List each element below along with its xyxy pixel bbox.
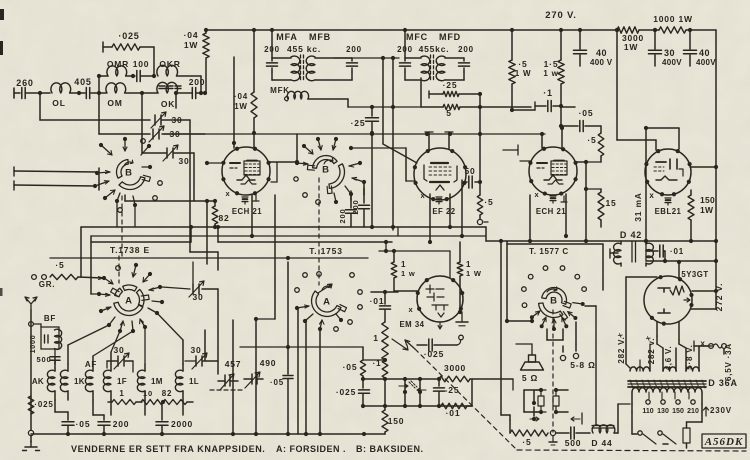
- svg-text:MFD: MFD: [439, 32, 461, 42]
- wire: [98, 168, 100, 190]
- svg-text:400 V: 400 V: [590, 58, 613, 67]
- resistor 1 det: [108, 389, 142, 405]
- svg-text:5-8 Ω: 5-8 Ω: [570, 360, 595, 370]
- wire: [639, 28, 659, 32]
- capacitor .1: [535, 88, 563, 112]
- capacitor -25: [434, 379, 460, 406]
- coil 1F: [103, 364, 127, 400]
- svg-text:-25: -25: [445, 385, 460, 395]
- trimmer 30 a: [151, 112, 190, 252]
- transformer D42: [610, 230, 653, 266]
- switch B3 contacts: [530, 302, 585, 331]
- coil OM: [106, 83, 158, 108]
- coil OKR: [157, 59, 201, 91]
- tube EBL21 spigot: [649, 191, 671, 205]
- svg-text:200: 200: [351, 200, 360, 215]
- switch A1 shaft: [116, 256, 121, 283]
- svg-text:BF: BF: [44, 314, 56, 323]
- svg-text:1000 1W: 1000 1W: [653, 14, 693, 24]
- svg-text:1 W: 1 W: [466, 269, 482, 278]
- output transformer: [524, 388, 568, 414]
- wire: [240, 262, 363, 368]
- label T.1738E: [110, 245, 150, 255]
- coil OL: [51, 83, 85, 108]
- label 282V a: [617, 336, 626, 363]
- coil OK: [157, 82, 178, 109]
- wire: [363, 404, 472, 408]
- svg-text:VENDERNE ER SETT FRA KNAPPSIDE: VENDERNE ER SETT FRA KNAPPSIDEN.: [71, 444, 265, 454]
- capacitor 30 400V: [649, 28, 683, 67]
- resistor 1.5 1W: [543, 30, 564, 107]
- label 270V: [545, 10, 576, 21]
- wire: [448, 180, 464, 238]
- svg-text:30: 30: [190, 345, 201, 355]
- wire: [501, 415, 510, 420]
- svg-text:OKR: OKR: [159, 59, 180, 69]
- wire: [334, 56, 399, 60]
- wire: [428, 194, 432, 244]
- wire: [351, 188, 364, 200]
- capacitor 260: [16, 78, 50, 99]
- svg-text:·5: ·5: [587, 135, 596, 145]
- capacitor 200 sw b: [351, 184, 370, 227]
- caption: [71, 444, 424, 454]
- wire: [505, 241, 534, 323]
- svg-text:1W: 1W: [700, 205, 714, 215]
- svg-text:200: 200: [338, 209, 347, 224]
- rotary switch B3: [539, 287, 572, 320]
- resistor .04 1W b: [234, 92, 257, 118]
- svg-text:200: 200: [458, 45, 474, 54]
- tube EBL21: [644, 149, 691, 216]
- variable capacitor 490: [244, 358, 276, 388]
- svg-text:1000: 1000: [30, 335, 37, 354]
- svg-text:6,5V ·3A: 6,5V ·3A: [724, 343, 733, 381]
- svg-text:1W: 1W: [624, 42, 639, 52]
- svg-text:1L: 1L: [189, 377, 199, 386]
- coil D44: [591, 404, 630, 448]
- ground em34: [456, 312, 468, 326]
- resistor .025: [103, 31, 154, 76]
- svg-text:·01: ·01: [446, 408, 461, 418]
- wire rail d: [486, 239, 718, 243]
- capacitor 200 sw a: [338, 196, 357, 227]
- trimmer 30 b: [149, 126, 205, 142]
- BF trap: [29, 314, 62, 353]
- svg-text:GR.: GR.: [39, 280, 56, 289]
- label 5.8V: [685, 344, 694, 369]
- svg-text:500: 500: [37, 355, 52, 364]
- GR input: [32, 260, 103, 289]
- svg-text:30: 30: [664, 48, 675, 58]
- svg-text:50: 50: [464, 166, 475, 176]
- heater x marks: [616, 331, 652, 342]
- svg-text:455 kc.: 455 kc.: [287, 44, 321, 54]
- antenna wire: [30, 310, 32, 430]
- svg-text:1 w: 1 w: [401, 269, 416, 278]
- wire: [93, 331, 133, 364]
- svg-text:·1: ·1: [543, 88, 553, 98]
- svg-text:150: 150: [388, 416, 405, 426]
- resistor 150 1W: [688, 190, 715, 243]
- antenna input terminal: [14, 88, 20, 98]
- trimmer 30 d: [107, 345, 133, 372]
- trimmer 30 e: [185, 345, 218, 369]
- svg-text:·025: ·025: [34, 400, 53, 409]
- svg-text:·01: ·01: [670, 247, 684, 256]
- svg-text:T.1738 E: T.1738 E: [110, 245, 150, 255]
- resistor 15: [598, 189, 617, 227]
- wire rail b: [91, 225, 193, 242]
- svg-text:230V: 230V: [710, 406, 732, 415]
- svg-text:405: 405: [74, 77, 91, 87]
- svg-text:OL: OL: [52, 98, 65, 108]
- wire: [663, 260, 681, 278]
- transformer D36A primary: [632, 388, 702, 404]
- tube ECH21 first: [221, 147, 270, 216]
- IF transformer MFC/MFD 455kc: [397, 32, 474, 81]
- antenna symbol: [25, 297, 37, 310]
- wire: [657, 322, 679, 340]
- svg-text:490: 490: [260, 358, 277, 368]
- coil OMR: [99, 59, 135, 78]
- switch B3 shaft: [552, 310, 554, 432]
- wire: [14, 167, 97, 176]
- svg-text:·04: ·04: [184, 30, 199, 40]
- wire: [274, 195, 276, 319]
- switch A1 contacts: [97, 263, 164, 333]
- svg-text:B: B: [125, 168, 133, 179]
- svg-text:·25: ·25: [351, 118, 366, 128]
- wire: [615, 28, 656, 150]
- capacitor 50: [464, 166, 482, 188]
- svg-text:1K: 1K: [74, 377, 85, 386]
- coil AF: [85, 360, 97, 400]
- tone switch: [399, 379, 426, 407]
- svg-text:MFA: MFA: [276, 32, 297, 42]
- tube EM34: [399, 276, 464, 329]
- svg-text:200: 200: [113, 419, 130, 429]
- wire: [254, 317, 275, 434]
- wire: [287, 418, 289, 434]
- svg-text:1: 1: [466, 260, 471, 269]
- svg-text:1 W: 1 W: [515, 69, 532, 78]
- resistor 3000 1W: [615, 27, 644, 52]
- capacitor 2000 bot: [156, 402, 193, 436]
- IF transformer MFA/MFB 455kc: [264, 32, 362, 81]
- ground main: [23, 441, 40, 451]
- wire: [298, 309, 320, 434]
- wire: [403, 28, 407, 58]
- wire: [351, 134, 406, 229]
- wire: [250, 195, 254, 238]
- svg-text:·5: ·5: [55, 260, 64, 270]
- tube 5Y3GT: [644, 270, 709, 326]
- resistor .5 g2: [586, 126, 604, 162]
- potentiometer 1 vol: [373, 322, 408, 360]
- svg-text:1M: 1M: [151, 377, 163, 386]
- rotary switch A2: [312, 284, 347, 317]
- wire: [646, 241, 718, 263]
- wire: [626, 277, 657, 368]
- trimmer 30 f: [162, 281, 218, 374]
- svg-text:110: 110: [642, 408, 653, 415]
- wire rail f: [190, 252, 218, 270]
- dashed control shaft arrow: [405, 340, 517, 450]
- resistor .01 tone: [441, 379, 472, 418]
- trimmer 30 c: [163, 145, 194, 201]
- svg-text:1: 1: [401, 260, 406, 269]
- svg-text:3000: 3000: [444, 363, 466, 373]
- wire: [560, 107, 575, 147]
- ground pot wiper: [549, 436, 557, 445]
- svg-text:T. 1577 C: T. 1577 C: [529, 247, 569, 256]
- coil 1K: [60, 364, 84, 400]
- resistor 5: [421, 78, 531, 118]
- tube EF22: [413, 148, 467, 216]
- label 230V: [704, 406, 732, 416]
- wire trimmer rail: [164, 131, 545, 136]
- svg-text:ECH 21: ECH 21: [536, 207, 566, 216]
- svg-text:·5: ·5: [484, 197, 493, 207]
- svg-text:·025: ·025: [424, 349, 444, 359]
- capacitor 500 bot: [556, 427, 590, 448]
- svg-text:OM: OM: [107, 98, 122, 108]
- svg-text:15: 15: [605, 198, 616, 208]
- svg-text:EBL21: EBL21: [655, 207, 682, 216]
- capacitor .025 em34: [417, 335, 463, 359]
- speaker: [516, 344, 544, 383]
- svg-text:AK: AK: [32, 377, 44, 386]
- wire rail e: [91, 236, 486, 294]
- wire: [383, 58, 417, 181]
- capacitor 500 bf: [37, 349, 60, 371]
- fuse 6,5V 3A: [694, 339, 733, 381]
- svg-text:100: 100: [133, 59, 150, 69]
- wire: [528, 195, 532, 243]
- svg-text:5Y3GT: 5Y3GT: [681, 270, 708, 279]
- switch B1 open contacts: [118, 139, 163, 213]
- coil 1L: [175, 364, 199, 400]
- svg-text:A: A: [323, 297, 331, 308]
- svg-text:1: 1: [373, 333, 379, 343]
- wire: [475, 94, 482, 182]
- transformer D36A secondary c: [679, 340, 712, 371]
- capacitor 40 400V b: [684, 30, 717, 67]
- wire: [503, 132, 544, 161]
- wire: [576, 306, 596, 424]
- wire rail h: [50, 256, 368, 260]
- wire rail a: [81, 227, 486, 277]
- svg-text:10: 10: [143, 389, 153, 398]
- wire: [93, 400, 183, 415]
- wire: [252, 30, 256, 147]
- switch B1 contacts: [93, 137, 152, 207]
- resistor 82: [205, 161, 230, 229]
- output terminals 5-8: [560, 344, 595, 370]
- tube ECH21-2 spigot: [535, 190, 567, 203]
- svg-text:OK: OK: [161, 99, 175, 109]
- capacitor .025 af: [336, 379, 370, 408]
- label 282V b: [647, 338, 656, 364]
- svg-text:A: FORSIDEN .: A: FORSIDEN .: [276, 444, 346, 454]
- capacitor .05: [510, 108, 601, 132]
- svg-text:D 42: D 42: [620, 230, 642, 240]
- svg-text:270 V.: 270 V.: [545, 10, 576, 21]
- label T.1577C: [529, 247, 569, 256]
- wire: [379, 240, 450, 277]
- wire: [644, 126, 718, 169]
- svg-text:2000: 2000: [171, 419, 193, 429]
- wire: [140, 91, 166, 153]
- wire: [270, 28, 274, 58]
- svg-text:T. 1753: T. 1753: [309, 246, 342, 256]
- resistor .25 agc: [429, 80, 482, 98]
- capacitor 40 400V a: [574, 30, 613, 67]
- svg-text:x: x: [409, 305, 414, 314]
- svg-text:200: 200: [189, 77, 206, 87]
- wire: [576, 160, 601, 243]
- wire: [14, 181, 95, 190]
- svg-text:30: 30: [178, 156, 189, 166]
- svg-text:·04: ·04: [234, 92, 248, 101]
- wire: [560, 107, 562, 128]
- tube ECH21 second: [528, 147, 577, 216]
- svg-text:500: 500: [565, 438, 582, 448]
- mains switch: [632, 412, 676, 444]
- svg-text:1: 1: [119, 389, 124, 398]
- wire: [564, 194, 568, 238]
- label T.1753: [309, 246, 342, 256]
- wire box t1577: [499, 239, 603, 415]
- svg-text:30: 30: [113, 345, 124, 355]
- resistor 3000 tone: [363, 363, 513, 390]
- wire: [632, 404, 702, 412]
- wire: [348, 99, 420, 109]
- output mute contacts: [530, 390, 582, 424]
- svg-text:B: BAKSIDEN.: B: BAKSIDEN.: [356, 444, 424, 454]
- svg-text:x: x: [535, 190, 540, 199]
- capacitor .01 d42: [646, 245, 684, 263]
- svg-text:1W: 1W: [184, 40, 199, 50]
- svg-text:x: x: [226, 189, 231, 198]
- svg-text:A56DK: A56DK: [704, 436, 744, 448]
- svg-text:x: x: [421, 191, 426, 200]
- svg-text:B: B: [550, 296, 558, 307]
- wire: [691, 291, 716, 309]
- svg-text:5: 5: [446, 108, 452, 118]
- svg-text:1·5: 1·5: [544, 59, 559, 69]
- coil AK: [32, 368, 55, 400]
- antenna terminal: [28, 430, 33, 442]
- wire: [174, 91, 178, 108]
- capacitor .05 bot: [62, 412, 90, 436]
- tube EM34 x: [409, 305, 414, 314]
- svg-text:·25: ·25: [443, 80, 458, 90]
- svg-text:31 mA: 31 mA: [633, 192, 643, 222]
- svg-text:EF 22: EF 22: [432, 207, 455, 216]
- svg-text:1F: 1F: [117, 377, 127, 386]
- scan edge marks: [0, 9, 4, 296]
- svg-text:MFB: MFB: [309, 32, 331, 42]
- wire: [547, 329, 563, 340]
- wire: [68, 313, 183, 364]
- transformer D36A secondary b: [657, 336, 676, 371]
- wire: [99, 116, 150, 134]
- coil MFK: [270, 86, 348, 101]
- wire 272V: [692, 261, 724, 311]
- svg-text:400V: 400V: [662, 58, 682, 67]
- label D36A: [708, 378, 738, 388]
- svg-text:5 Ω: 5 Ω: [522, 373, 538, 383]
- wire: [54, 356, 56, 364]
- resistor .05 af: [343, 347, 387, 381]
- svg-text:MFC: MFC: [406, 32, 428, 42]
- resistor .04 1W: [184, 28, 210, 95]
- svg-text:·025: ·025: [118, 31, 139, 41]
- iron core marks: [159, 86, 181, 89]
- rotary switch A1: [111, 285, 150, 316]
- svg-text:1 w: 1 w: [543, 69, 558, 78]
- rotary switch B1: [117, 160, 151, 190]
- svg-text:260: 260: [16, 78, 33, 88]
- capacitor .01 af: [370, 290, 398, 322]
- primary taps: [646, 400, 695, 404]
- svg-text:30: 30: [192, 292, 203, 302]
- wire anode 31mA: [644, 130, 648, 243]
- transformer D36A secondary a: [630, 344, 650, 371]
- svg-text:A: A: [125, 296, 133, 307]
- capacitor 200 bot: [98, 415, 129, 436]
- resistor .1: [373, 359, 388, 378]
- svg-text:·5: ·5: [518, 59, 527, 69]
- capacitor 100: [133, 59, 156, 82]
- svg-text:·05: ·05: [579, 108, 594, 118]
- ground bus: [31, 432, 385, 436]
- wire: [97, 74, 101, 116]
- tap labels: [642, 408, 699, 415]
- resistor 150 af: [382, 379, 404, 434]
- svg-text:·5: ·5: [522, 437, 531, 447]
- svg-text:OMR: OMR: [107, 59, 129, 69]
- wire: [270, 134, 299, 182]
- svg-text:40: 40: [699, 48, 710, 58]
- tube ECH21 spigot: [226, 189, 259, 204]
- wire rail c: [216, 225, 392, 242]
- capacitor 200 ant: [178, 77, 206, 99]
- svg-text:·05: ·05: [76, 419, 91, 429]
- svg-text:D 36A: D 36A: [708, 378, 738, 388]
- resistor 1 1W b: [457, 242, 482, 314]
- resistor 1000 1W: [653, 14, 716, 33]
- mains fuse: [683, 412, 702, 448]
- resistor .5 1W: [509, 30, 532, 110]
- rotary switch B2: [307, 156, 344, 194]
- wire: [391, 58, 395, 230]
- transformer D36A core: [628, 380, 706, 388]
- wire: [55, 400, 68, 412]
- svg-text:EM 34: EM 34: [399, 320, 424, 329]
- svg-text:·01: ·01: [370, 296, 385, 306]
- switch B2 open contacts: [303, 193, 321, 205]
- svg-text:40: 40: [596, 48, 607, 58]
- svg-text:210: 210: [687, 408, 699, 415]
- switch B3 open contacts: [522, 266, 587, 308]
- svg-text:82: 82: [218, 213, 229, 223]
- wire: [192, 262, 194, 284]
- svg-text:130: 130: [657, 408, 669, 415]
- label 4,6V: [664, 346, 673, 371]
